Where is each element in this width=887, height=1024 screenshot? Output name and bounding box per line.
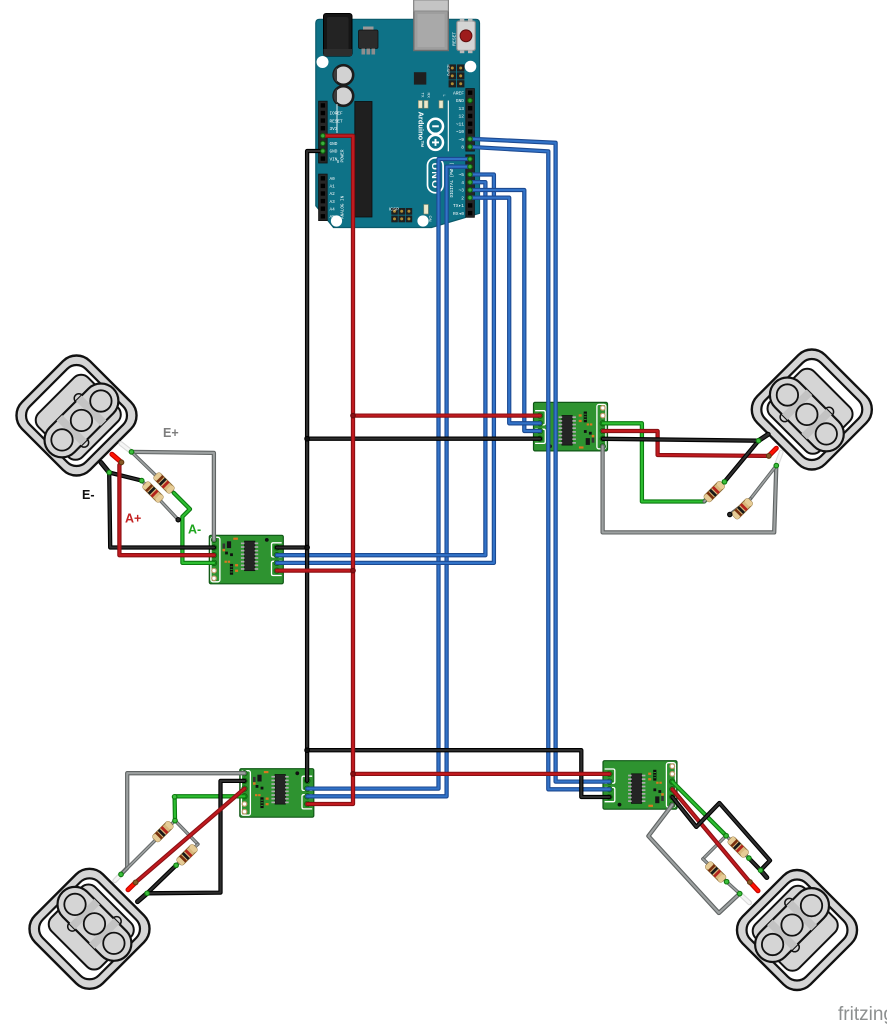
wire resistor lead BR-A (726, 836, 749, 858)
node BL A- joint (173, 818, 178, 823)
node TR R3 joint (722, 480, 727, 485)
wire D5 to U2 SCK (277, 175, 494, 563)
tx rx leds (418, 101, 422, 109)
wire E+ BR (648, 805, 739, 913)
wire GND to U1 (307, 437, 540, 441)
svg-text:IOREF: IOREF (330, 112, 344, 117)
node junction 5V-U2 (351, 568, 356, 573)
wire D8 to U4 DT (470, 147, 610, 789)
wire load cell TL E+ stub (121, 444, 132, 452)
wire D7 to U3 DT (307, 159, 470, 789)
node TR A+ joint (766, 454, 771, 459)
right digital header lower (466, 155, 475, 217)
wire A- BR (672, 782, 726, 836)
node TL E+ joint (129, 450, 134, 455)
resistor R5 (BL E+/A-) (152, 820, 174, 842)
svg-text:TX: TX (421, 93, 425, 98)
usb connector (414, 0, 449, 51)
wire E- BL (147, 781, 244, 893)
node TL R2 end (176, 518, 180, 522)
wire resistor lead TR-B2 (730, 499, 751, 515)
load cell top-right (744, 342, 880, 478)
node BL A- bend (172, 795, 177, 800)
wire resistor lead BL-B2 (176, 844, 198, 865)
svg-text:13: 13 (458, 106, 464, 112)
resistor R2 (TL E-) (142, 481, 164, 503)
node junction 5V-U1 (351, 413, 356, 418)
svg-text:VIN: VIN (330, 157, 338, 162)
node TR E+ joint (774, 463, 779, 468)
wire resistor lead BR-B2 (703, 859, 727, 882)
svg-text:4: 4 (461, 180, 464, 186)
HX711 board U2 (left middle) (209, 535, 283, 584)
wire load cell BR A+ stub (750, 882, 758, 891)
svg-text:POWER: POWER (341, 149, 346, 162)
node BL E+ joint (119, 872, 124, 877)
wire 5V to U1 (353, 413, 540, 417)
node BR A+ joint (748, 880, 753, 885)
power LED ON (424, 205, 429, 215)
wire load cell TR A+ stub (769, 448, 777, 456)
wire load cell TL E- stub (101, 463, 109, 473)
wire E+ BL (121, 773, 245, 874)
svg-text:RX: RX (426, 93, 430, 99)
usb interface IC (414, 72, 426, 84)
node TL A+ joint (119, 460, 124, 465)
resistor R4 (TR E+) (731, 498, 753, 520)
wire resistor lead BL-B1 (175, 821, 198, 845)
svg-text:2: 2 (461, 195, 464, 201)
svg-text:ICSP2: ICSP2 (446, 65, 451, 77)
wire A- BL (175, 796, 245, 820)
left power header (319, 101, 328, 163)
resistor R8 (BR E+) (704, 861, 726, 883)
wire resistor lead TL-up (132, 452, 174, 493)
ICSP2 header (449, 64, 456, 71)
wire 5V to U4 (353, 772, 610, 776)
wire resistor lead TR-B1 (750, 466, 776, 499)
node TR R4 end (728, 512, 732, 516)
svg-text:~11: ~11 (456, 121, 465, 127)
wire resistor lead BR-B1 (703, 836, 726, 859)
node BR E+ joint (737, 891, 742, 896)
node BR A- joint (724, 833, 729, 838)
wire D9 to U4 SCK (470, 139, 610, 782)
node TR E- joint (756, 438, 761, 443)
capacitor C1 (334, 65, 354, 85)
HX711 board U4 (bottom right) (603, 761, 677, 810)
wire load cell BR E+ stub (740, 894, 750, 903)
svg-text:fritzing: fritzing (838, 1004, 887, 1024)
node BR R8 joint (724, 879, 729, 884)
node BR R7 joint (747, 856, 752, 861)
svg-text:ON: ON (428, 216, 433, 222)
wire load cell BR E- stub (761, 870, 767, 877)
svg-text:E+: E+ (163, 426, 179, 440)
svg-text:RESET: RESET (330, 119, 344, 124)
svg-text:8: 8 (461, 145, 464, 151)
svg-text:12: 12 (458, 114, 464, 120)
svg-text:A-: A- (188, 523, 201, 537)
svg-text:L: L (442, 95, 446, 97)
node BL E- joint (145, 891, 150, 896)
svg-text:A2: A2 (330, 192, 336, 197)
wire E- TR (603, 439, 759, 441)
svg-text:~9: ~9 (458, 137, 464, 143)
node junction GND-U1 (305, 436, 310, 441)
wire E- BL branch (147, 865, 176, 893)
voltage regulator (363, 27, 374, 32)
load cell bottom-left (22, 861, 158, 997)
wire E- TL branch (109, 473, 142, 481)
svg-text:RX◂0: RX◂0 (453, 211, 464, 217)
wire resistor lead BR-B3 (727, 882, 740, 894)
node BL A+ joint (133, 880, 138, 885)
svg-text:E-: E- (82, 488, 95, 502)
svg-text:~5: ~5 (458, 172, 464, 178)
svg-text:GND: GND (330, 150, 338, 155)
wire D3 to U1 SCK (470, 190, 540, 431)
wire load cell TR E+ stub (776, 452, 781, 465)
wire GND to U2 (277, 545, 307, 549)
load cell top-left (9, 348, 145, 484)
wire E+ TR (603, 446, 777, 532)
ICSP header (391, 208, 398, 215)
node BL R6 joint (174, 863, 179, 868)
wire A- TR (603, 423, 712, 501)
HX711 board U3 (bottom left) (240, 769, 314, 818)
wire load cell BL A+ stub (128, 882, 136, 889)
wire E- BR (672, 797, 770, 870)
reset button (457, 21, 476, 51)
load cell bottom-right (729, 862, 865, 998)
Arduino logo (428, 119, 443, 134)
resistor R6 (BL E-) (176, 844, 198, 866)
right digital header upper (466, 89, 475, 152)
resistor R1 (TL E+/A-) (153, 472, 175, 494)
wire E- TL (109, 473, 214, 548)
power jack (324, 14, 353, 57)
wire A+ TR (603, 431, 769, 456)
wire A+ BR (672, 789, 750, 882)
svg-text:3V3: 3V3 (330, 127, 338, 132)
wire E- BR branch (749, 858, 761, 870)
svg-text:A+: A+ (125, 512, 141, 526)
node TL E- joint (107, 470, 112, 475)
svg-text:A5: A5 (330, 215, 336, 220)
svg-text:A1: A1 (330, 185, 336, 190)
svg-text:AREF: AREF (453, 90, 464, 96)
wire A- TL (174, 493, 214, 563)
wire D2 to U1 DT (470, 198, 540, 424)
wire E- TR branch (725, 441, 759, 482)
wire GND bus (307, 151, 322, 781)
wire E+ TL (132, 452, 214, 540)
capacitor C2 (334, 86, 354, 106)
left analog header (319, 174, 328, 221)
svg-text:RESET: RESET (452, 32, 457, 46)
svg-text:A0: A0 (330, 177, 336, 182)
resistor R3 (TR E-/A-) (703, 480, 725, 502)
wire D6 to U3 SCK (307, 167, 470, 797)
svg-text:~3: ~3 (458, 188, 464, 194)
svg-text:GND: GND (456, 98, 465, 104)
svg-text:A4: A4 (330, 207, 336, 212)
wire GND to U4 (307, 750, 609, 797)
wire load cell BL E+ stub (115, 874, 121, 880)
wire load cell TL A+ stub (112, 454, 122, 462)
wire resistor lead BL-A (121, 821, 175, 875)
svg-text:GND: GND (330, 142, 338, 147)
wire 5V bus (307, 136, 353, 804)
node junction 5V-U4 (351, 772, 356, 777)
wire resistor lead TL-low (142, 481, 179, 520)
svg-text:TX▸1: TX▸1 (453, 203, 464, 209)
node junction GND-U4 (305, 748, 310, 753)
wire A+ BL (136, 789, 245, 883)
wire A+ TL (119, 462, 214, 555)
ATmega328 IC (355, 102, 372, 218)
resistor R7 (BR A-) (727, 836, 749, 858)
node junction GND-U2 (305, 545, 310, 550)
svg-text:A3: A3 (330, 200, 336, 205)
wire load cell TR E- stub (759, 434, 769, 440)
wire D4 to U2 DT (277, 182, 486, 555)
Arduino Uno board (316, 0, 480, 228)
node TL R2 joint (139, 478, 144, 483)
arduino pin connection dots (321, 134, 325, 138)
wire 5V to U2 (277, 568, 353, 572)
HX711 board U1 (top right) (534, 402, 608, 451)
svg-text:~10: ~10 (456, 129, 465, 135)
svg-text:ANALOG IN: ANALOG IN (341, 195, 346, 219)
svg-text:ICSP: ICSP (389, 206, 399, 211)
svg-text:Arduino™: Arduino™ (417, 112, 426, 148)
wire load cell BL E- stub (138, 893, 148, 901)
node BR E- joint (758, 868, 763, 873)
wire resistor lead TR-A (704, 482, 724, 502)
